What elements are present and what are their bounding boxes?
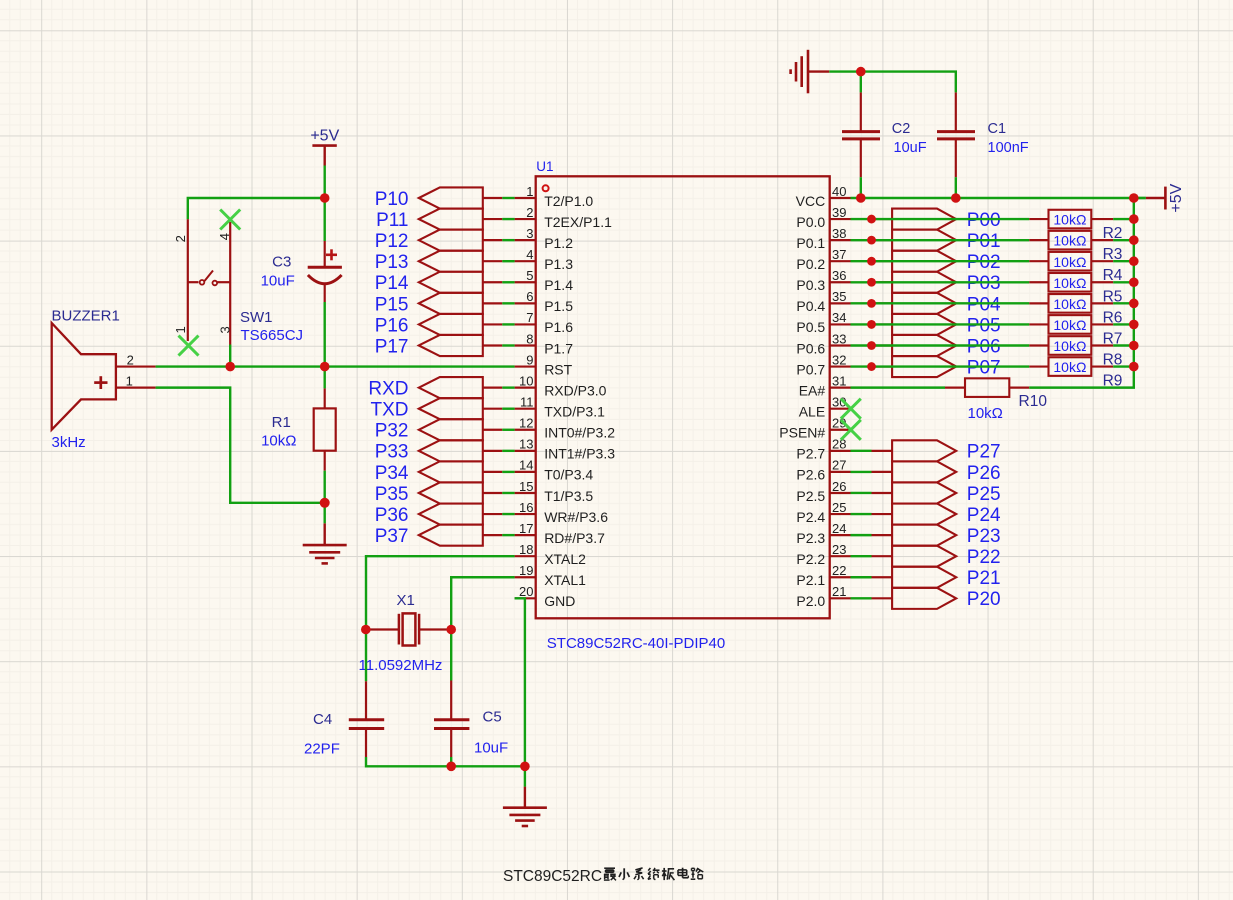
wire P10 flag to pin 1 [502, 197, 514, 199]
svg-text:P36: P36 [375, 505, 409, 526]
svg-text:P06: P06 [967, 336, 1001, 357]
svg-text:GND: GND [544, 593, 575, 609]
wire P17 flag to pin 8 [502, 344, 514, 346]
port flag P06 (pin 33) [872, 344, 893, 346]
svg-text:C5: C5 [483, 709, 502, 726]
port flag P34 (pin 14) [419, 461, 483, 482]
wire C2 top drop [860, 72, 862, 93]
svg-text:C4: C4 [313, 711, 332, 728]
pin 39 stub (P0.0) [830, 218, 851, 220]
svg-text:39: 39 [832, 205, 846, 220]
port flag P15 (pin 6) [419, 293, 483, 314]
capacitor C4 22PF [365, 681, 367, 719]
svg-text:P23: P23 [967, 526, 1001, 547]
wire crystal left to C4 [365, 630, 367, 682]
junction dot R9 / +5V bus [1129, 362, 1139, 372]
svg-text:WR#/P3.6: WR#/P3.6 [544, 509, 608, 525]
svg-text:P22: P22 [967, 547, 1001, 568]
svg-text:P07: P07 [967, 357, 1001, 378]
svg-text:P34: P34 [375, 463, 409, 484]
wire R1 top [324, 367, 326, 389]
svg-text:19: 19 [519, 563, 533, 578]
svg-text:26: 26 [832, 479, 846, 494]
junction dot C3 / RST / R1 [320, 362, 330, 372]
port flag P13 (pin 4) [419, 251, 483, 272]
port flag P03 (pin 36) [872, 281, 893, 283]
svg-text:BUZZER1: BUZZER1 [52, 307, 120, 324]
wire EA# to R10 [851, 386, 946, 388]
wire C4 bottom rail [366, 757, 525, 766]
pin 15 stub (T1/P3.5) [515, 492, 536, 494]
svg-text:6: 6 [526, 289, 533, 304]
port flag P27 (pin 28) [872, 450, 893, 452]
buzzer pin 1 stub [116, 387, 156, 389]
svg-text:10kΩ: 10kΩ [261, 433, 296, 450]
junction dot +5V/SW/C3 [320, 193, 330, 203]
svg-text:22PF: 22PF [304, 740, 340, 757]
junction dot R5 / +5V bus [1129, 277, 1139, 287]
junction dot R3 / +5V bus [1129, 235, 1139, 245]
svg-text:22: 22 [832, 563, 846, 578]
pin 9 stub (RST) [515, 365, 536, 367]
svg-text:10kΩ: 10kΩ [1053, 359, 1086, 375]
svg-text:P0.1: P0.1 [796, 235, 825, 251]
wire P37 flag to pin 17 [502, 534, 514, 536]
pin 22 stub (P2.1) [830, 576, 851, 578]
pin 19 stub (XTAL1) [515, 576, 536, 578]
svg-text:32: 32 [832, 352, 846, 367]
svg-text:T1/P3.5: T1/P3.5 [544, 488, 593, 504]
svg-text:31: 31 [832, 373, 846, 388]
junction dot R8 / +5V bus [1129, 341, 1139, 351]
svg-text:+5V: +5V [310, 128, 339, 145]
svg-text:INT1#/P3.3: INT1#/P3.3 [544, 446, 615, 462]
wire P0.1 to resistor R3 [851, 239, 1030, 241]
wire top ground to C2/C1 [829, 72, 956, 93]
wire C3 top [324, 198, 326, 241]
svg-text:P25: P25 [967, 484, 1001, 505]
junction dot P0.1 flag pin [867, 236, 876, 245]
pin 12 stub (INT0#/P3.2) [515, 429, 536, 431]
wire P2.6 to flag [851, 471, 872, 473]
svg-text:+5V: +5V [1168, 183, 1185, 212]
wire SW1 pin3 to RST net [229, 345, 231, 367]
wire XTAL2 to crystal left [366, 556, 515, 629]
svg-text:SW1: SW1 [240, 309, 273, 326]
svg-text:P20: P20 [967, 589, 1001, 610]
svg-text:10uF: 10uF [474, 740, 508, 757]
wire C3 bottom to RST net [324, 302, 326, 367]
svg-text:P02: P02 [967, 252, 1001, 273]
port flag P10 (pin 1) [419, 187, 483, 208]
junction dot VCC / C2 [856, 193, 866, 203]
title hanzi (drawn strokes) [604, 868, 703, 881]
wire R5 to +5V bus [1113, 281, 1134, 283]
svg-text:RXD: RXD [368, 379, 408, 400]
svg-text:10kΩ: 10kΩ [1053, 317, 1086, 333]
svg-text:2: 2 [173, 235, 188, 242]
pin 4 stub (P1.3) [515, 260, 536, 262]
svg-text:P1.2: P1.2 [544, 235, 573, 251]
buzzer BUZZER1 3kHz [52, 323, 116, 430]
svg-text:X1: X1 [397, 592, 415, 609]
svg-text:10: 10 [519, 373, 533, 388]
svg-text:TS665CJ: TS665CJ [241, 327, 304, 344]
port flag P05 (pin 34) [872, 323, 893, 325]
switch SW1 contacts and actuator [188, 281, 199, 283]
pin 7 stub (P1.6) [515, 323, 536, 325]
svg-text:17: 17 [519, 521, 533, 536]
svg-text:P27: P27 [967, 442, 1001, 463]
svg-text:27: 27 [832, 458, 846, 473]
svg-text:10kΩ: 10kΩ [1053, 212, 1086, 228]
port flag P02 (pin 37) [872, 260, 893, 262]
svg-text:R10: R10 [1019, 393, 1048, 410]
wire P36 flag to pin 16 [502, 513, 514, 515]
svg-text:28: 28 [832, 437, 846, 452]
pin 5 stub (P1.4) [515, 281, 536, 283]
pin 3 stub (P1.2) [515, 239, 536, 241]
pin 21 stub (P2.0) [830, 597, 851, 599]
port flag P16 (pin 7) [419, 314, 483, 335]
svg-text:P2.7: P2.7 [796, 446, 825, 462]
wire SW1 top to +5V junction [188, 198, 325, 219]
svg-text:P1.5: P1.5 [544, 298, 573, 314]
resistor R10 10k (EA#) [945, 387, 965, 389]
svg-text:P1.3: P1.3 [544, 256, 573, 272]
wire crystal right to C5 [450, 630, 452, 681]
crystal X1 11.0592MHz [366, 628, 399, 630]
port flag P22 (pin 23) [872, 555, 893, 557]
wire TXD flag to pin 11 [502, 408, 514, 410]
buzzer pin 2 stub [116, 365, 156, 367]
wire P13 flag to pin 4 [502, 260, 514, 262]
svg-text:P32: P32 [375, 421, 409, 442]
svg-text:P2.1: P2.1 [796, 572, 825, 588]
junction dot P0.3 flag pin [867, 278, 876, 287]
svg-text:RD#/P3.7: RD#/P3.7 [544, 530, 605, 546]
no-connect X on SW1 pin 4 [220, 210, 240, 230]
port flag P12 (pin 3) [419, 230, 483, 251]
svg-text:33: 33 [832, 331, 846, 346]
svg-text:11: 11 [520, 395, 534, 410]
wire P2.7 to flag [851, 450, 872, 452]
junction dot bottom rail / ground [520, 762, 530, 772]
wire R1 bottom to ground [324, 471, 326, 524]
wire VCC to +5V flag (right) [1134, 197, 1146, 199]
svg-text:10kΩ: 10kΩ [1053, 275, 1086, 291]
svg-text:10kΩ: 10kΩ [1053, 233, 1086, 249]
wire +5V right bus vertical [1133, 198, 1135, 367]
svg-text:20: 20 [519, 584, 533, 599]
svg-text:STC89C52RC: STC89C52RC [503, 868, 602, 885]
svg-text:4: 4 [526, 247, 533, 262]
wire P2.5 to flag [851, 492, 872, 494]
svg-text:16: 16 [519, 500, 533, 515]
svg-text:P0.4: P0.4 [796, 298, 825, 314]
port flag P24 (pin 25) [872, 513, 893, 515]
wire P2.2 to flag [851, 555, 872, 557]
junction dot P0.7 flag pin [867, 362, 876, 371]
svg-text:U1: U1 [536, 159, 553, 174]
wire P15 flag to pin 6 [502, 302, 514, 304]
svg-text:1: 1 [126, 373, 133, 388]
pin 11 stub (TXD/P3.1) [515, 408, 536, 410]
pin 29 stub (PSEN#) [830, 429, 851, 431]
wire +5V left to junction [324, 166, 326, 199]
svg-text:4: 4 [217, 233, 232, 240]
svg-text:38: 38 [832, 226, 846, 241]
svg-text:P0.3: P0.3 [796, 277, 825, 293]
capacitor C1 100nF [955, 92, 957, 131]
wire P0.6 to resistor R8 [851, 344, 1030, 346]
switch SW1 left leg (pins 2-1) [187, 219, 189, 341]
pin 24 stub (P2.3) [830, 534, 851, 536]
svg-text:13: 13 [519, 437, 533, 452]
pin 27 stub (P2.6) [830, 471, 851, 473]
resistor R3 10k [1029, 239, 1048, 241]
junction dot C5 bottom rail [446, 762, 456, 772]
pin 10 stub (RXD/P3.0) [515, 387, 536, 389]
pin 38 stub (P0.1) [830, 239, 851, 241]
junction dot P0.2 flag pin [867, 257, 876, 266]
ground (below R1) [324, 523, 326, 545]
pin 14 stub (T0/P3.4) [515, 471, 536, 473]
pin 32 stub (P0.7) [830, 365, 851, 367]
port flag P21 (pin 22) [872, 576, 893, 578]
svg-text:1: 1 [526, 184, 533, 199]
wire RXD flag to pin 10 [502, 386, 514, 388]
svg-text:P13: P13 [375, 252, 409, 273]
svg-text:INT0#/P3.2: INT0#/P3.2 [544, 425, 615, 441]
junction dot R6 / +5V bus [1129, 299, 1139, 309]
svg-text:P12: P12 [375, 231, 409, 252]
svg-text:15: 15 [519, 479, 533, 494]
wire P0.0 to resistor R2 [851, 218, 1030, 220]
pin 23 stub (P2.2) [830, 555, 851, 557]
wire C2 bottom [860, 177, 862, 198]
svg-text:P0.7: P0.7 [796, 361, 825, 377]
svg-text:P14: P14 [375, 273, 409, 294]
wire P11 flag to pin 2 [502, 218, 514, 220]
pin 30 stub (ALE) [830, 408, 851, 410]
svg-text:1: 1 [173, 326, 188, 333]
wire C1 bottom [955, 177, 957, 198]
svg-text:XTAL1: XTAL1 [544, 572, 586, 588]
svg-text:P11: P11 [376, 210, 408, 231]
svg-text:2: 2 [526, 205, 533, 220]
wire P0.4 to resistor R6 [851, 302, 1030, 304]
pin 36 stub (P0.3) [830, 281, 851, 283]
svg-text:PSEN#: PSEN# [779, 425, 825, 441]
pin 8 stub (P1.7) [515, 344, 536, 346]
wire R2 to +5V bus [1113, 218, 1134, 220]
wire P34 flag to pin 14 [502, 471, 514, 473]
junction dot P0.5 flag pin [867, 320, 876, 329]
port flag RXD (pin 10) [419, 377, 483, 398]
wire VCC rail [851, 197, 1146, 199]
pin 28 stub (P2.7) [830, 450, 851, 452]
pin 34 stub (P0.5) [830, 323, 851, 325]
capacitor C3 10uF (polarized) [324, 241, 326, 267]
pin 31 stub (EA#) [830, 387, 851, 389]
svg-text:14: 14 [519, 458, 533, 473]
svg-text:2: 2 [127, 353, 134, 368]
junction dot VCC / +5V bus [1129, 193, 1139, 203]
port flag P25 (pin 26) [872, 492, 893, 494]
wire P2.1 to flag [851, 576, 872, 578]
svg-text:P0.2: P0.2 [796, 256, 825, 272]
port flag P36 (pin 16) [419, 504, 483, 525]
svg-text:12: 12 [519, 416, 533, 431]
svg-text:36: 36 [832, 268, 846, 283]
wire R3 to +5V bus [1113, 239, 1134, 241]
svg-text:8: 8 [526, 331, 533, 346]
pin 1 orientation ring [543, 185, 549, 191]
wire P33 flag to pin 13 [502, 450, 514, 452]
wire R6 to +5V bus [1113, 302, 1134, 304]
svg-text:10kΩ: 10kΩ [968, 405, 1003, 422]
port flag P17 (pin 8) [419, 335, 483, 356]
svg-text:5: 5 [526, 268, 533, 283]
ground (bottom, near C5) [524, 787, 526, 808]
svg-text:T2/P1.0: T2/P1.0 [544, 193, 593, 209]
port flag P23 (pin 24) [872, 534, 893, 536]
svg-text:40: 40 [832, 184, 846, 199]
wire P2.4 to flag [851, 513, 872, 515]
svg-text:C1: C1 [988, 121, 1007, 137]
pin 20 stub (GND) [515, 597, 536, 599]
svg-text:24: 24 [832, 521, 846, 536]
resistor R6 10k [1029, 302, 1048, 304]
resistor R1 10k [324, 388, 326, 408]
svg-text:RST: RST [544, 361, 572, 377]
port flag P07 (pin 32) [872, 365, 893, 367]
svg-text:RXD/P3.0: RXD/P3.0 [544, 382, 606, 398]
svg-text:P21: P21 [967, 568, 1001, 589]
svg-text:P16: P16 [375, 315, 409, 336]
wire RST net (buzzer pin2 to IC RST) [156, 365, 515, 367]
svg-text:P2.6: P2.6 [796, 467, 825, 483]
wire P0.7 to resistor R9 [851, 365, 1030, 367]
svg-text:STC89C52RC-40I-PDIP40: STC89C52RC-40I-PDIP40 [547, 635, 725, 652]
port flag TXD (pin 11) [419, 398, 483, 419]
svg-text:T2EX/P1.1: T2EX/P1.1 [544, 214, 612, 230]
pin 17 stub (RD#/P3.7) [515, 534, 536, 536]
wire P2.3 to flag [851, 534, 872, 536]
wire R8 to +5V bus [1113, 344, 1134, 346]
resistor R5 10k [1029, 281, 1048, 283]
svg-text:11.0592MHz: 11.0592MHz [359, 657, 443, 674]
junction dot R7 / +5V bus [1129, 320, 1139, 330]
capacitor C5 10uF [450, 681, 452, 720]
no-connect X on PSEN# (pin 29) [841, 420, 861, 440]
wire P14 flag to pin 5 [502, 281, 514, 283]
svg-text:10kΩ: 10kΩ [1053, 254, 1086, 270]
wire P35 flag to pin 15 [502, 492, 514, 494]
svg-text:P2.0: P2.0 [796, 593, 825, 609]
svg-text:ALE: ALE [799, 404, 825, 420]
svg-text:TXD/P3.1: TXD/P3.1 [544, 404, 605, 420]
svg-text:P2.2: P2.2 [796, 551, 825, 567]
junction dot R1 bottom / buzzer pin1 / ground [320, 498, 330, 508]
svg-text:9: 9 [526, 352, 533, 367]
svg-text:7: 7 [526, 310, 533, 325]
svg-text:P0.5: P0.5 [796, 319, 825, 335]
no-connect X on SW1 pin 1 [179, 336, 199, 356]
svg-text:P26: P26 [967, 463, 1001, 484]
resistor R4 10k [1029, 260, 1048, 262]
port flag P14 (pin 5) [419, 272, 483, 293]
svg-text:18: 18 [519, 542, 533, 557]
svg-text:10kΩ: 10kΩ [1053, 338, 1086, 354]
port flag P33 (pin 13) [419, 440, 483, 461]
svg-text:3kHz: 3kHz [52, 434, 86, 451]
wire P0.2 to resistor R4 [851, 260, 1030, 262]
svg-text:10uF: 10uF [261, 273, 295, 290]
IC U1 body STC89C52RC [536, 176, 830, 618]
junction dot crystal left / C4 / XTAL2 [361, 625, 371, 635]
svg-text:P10: P10 [375, 189, 409, 210]
svg-text:100nF: 100nF [988, 140, 1029, 156]
svg-text:T0/P3.4: T0/P3.4 [544, 467, 593, 483]
wire XTAL1 to crystal right [451, 577, 514, 629]
svg-text:P1.6: P1.6 [544, 319, 573, 335]
wire buzzer pin1 to R1 bottom junction [156, 388, 325, 503]
wire P32 flag to pin 12 [502, 429, 514, 431]
svg-text:EA#: EA# [799, 382, 826, 398]
resistor R7 10k [1029, 323, 1048, 325]
wire C5 bottom [450, 757, 452, 766]
wire P16 flag to pin 7 [502, 323, 514, 325]
pin 6 stub (P1.5) [515, 302, 536, 304]
port flag P37 (pin 17) [419, 525, 483, 546]
svg-text:R1: R1 [272, 414, 291, 431]
svg-text:21: 21 [832, 584, 846, 599]
+5V power flag (left) [312, 144, 336, 147]
svg-text:XTAL2: XTAL2 [544, 551, 586, 567]
pin 25 stub (P2.4) [830, 513, 851, 515]
svg-text:P0.6: P0.6 [796, 340, 825, 356]
svg-text:35: 35 [832, 289, 846, 304]
+5V power flag (right) [1146, 197, 1166, 199]
wire R4 to +5V bus [1113, 260, 1134, 262]
svg-text:P00: P00 [967, 210, 1001, 231]
buzzer plus sign [94, 381, 107, 384]
resistor R8 10k [1029, 344, 1048, 346]
svg-text:P15: P15 [375, 294, 409, 315]
wire R9 to +5V bus [1113, 365, 1134, 367]
pin 35 stub (P0.4) [830, 302, 851, 304]
pin 13 stub (INT1#/P3.3) [515, 450, 536, 452]
junction dot SW pin3 / RST [225, 362, 235, 372]
svg-text:3: 3 [217, 326, 232, 333]
port flag P35 (pin 15) [419, 482, 483, 503]
svg-text:23: 23 [832, 542, 846, 557]
svg-text:P35: P35 [375, 484, 409, 505]
svg-text:C2: C2 [892, 121, 911, 137]
svg-text:P24: P24 [967, 505, 1001, 526]
svg-text:P37: P37 [375, 526, 409, 547]
svg-text:P1.4: P1.4 [544, 277, 573, 293]
pin 26 stub (P2.5) [830, 492, 851, 494]
wire P2.0 to flag [851, 597, 872, 599]
svg-text:37: 37 [832, 247, 846, 262]
junction dot R2 / +5V bus [1129, 214, 1139, 224]
svg-text:P17: P17 [375, 336, 409, 357]
junction dot R4 / +5V bus [1129, 256, 1139, 266]
svg-text:25: 25 [832, 500, 846, 515]
